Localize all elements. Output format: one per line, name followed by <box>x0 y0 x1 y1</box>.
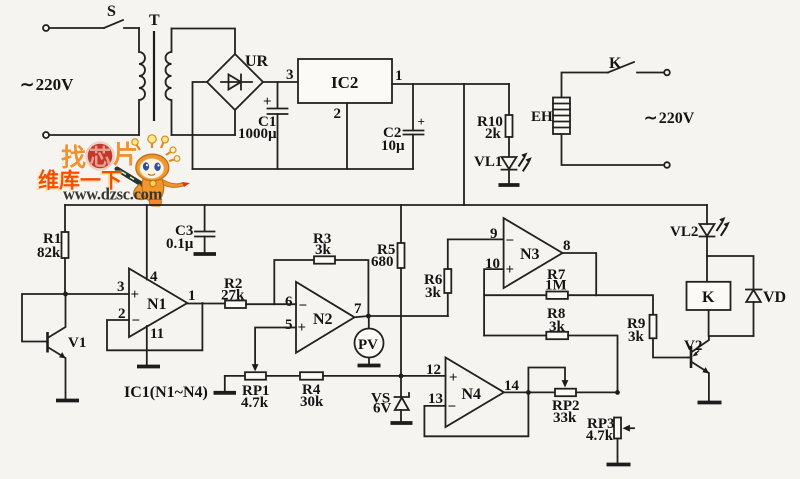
capacitor C1 1000u <box>238 82 288 169</box>
wire R7 junction to R9 <box>596 295 653 315</box>
wire secondary top to bridge <box>172 29 236 55</box>
wire R9 to V2 base <box>688 357 691 359</box>
transformer T primary winding <box>139 28 145 135</box>
svg-text:S: S <box>107 3 116 20</box>
svg-text:2k: 2k <box>485 126 502 142</box>
wire relay K bottom <box>708 310 710 336</box>
svg-text:V2: V2 <box>684 338 702 354</box>
wire terminal to switch S <box>49 27 104 29</box>
LED VL2 <box>670 205 730 240</box>
potentiometer RP2 33k <box>552 389 618 426</box>
N4 pin 13 feedback loop <box>424 392 528 436</box>
node N2 output junction <box>366 314 371 319</box>
ground below N1 pin 11 <box>137 365 160 369</box>
ground below PV <box>358 364 381 368</box>
resistor R6 3k <box>424 239 451 316</box>
ground rail top section <box>193 168 414 170</box>
N2 pin 5 wire to RP1 wiper <box>252 328 296 372</box>
wire node to N1 pin 3 <box>66 293 130 295</box>
wire bridge left vertex to ground rail <box>193 82 208 169</box>
svg-text:−: − <box>448 399 457 415</box>
svg-text:IC1(N1~N4): IC1(N1~N4) <box>124 384 208 401</box>
svg-text:+: + <box>506 262 515 278</box>
RP2 wiper wire <box>528 368 568 393</box>
svg-text:∼ 220V: ∼ 220V <box>644 110 695 127</box>
transistor V1 <box>48 294 87 399</box>
svg-text:UR: UR <box>245 53 269 70</box>
transformer T core <box>149 12 160 121</box>
svg-text:1000µ: 1000µ <box>238 126 277 142</box>
svg-text:芯: 芯 <box>89 145 111 170</box>
wire R2 to N2 pin 6 with R3 tap <box>246 303 296 305</box>
svg-text:680: 680 <box>371 254 394 270</box>
transformer T secondary winding <box>166 29 172 136</box>
N3 pin 10 wire <box>484 269 504 335</box>
zener diode VS 6V <box>371 376 409 421</box>
svg-text:VL1: VL1 <box>474 154 502 170</box>
meter PV <box>355 316 384 364</box>
svg-text:5: 5 <box>285 317 293 333</box>
svg-text:8: 8 <box>563 238 571 254</box>
transistor V2 <box>684 336 709 401</box>
svg-text:T: T <box>149 12 160 29</box>
wire EH top to switch K <box>562 73 609 98</box>
V+ rail lower section <box>65 204 707 206</box>
svg-text:N3: N3 <box>520 246 540 263</box>
wire R6 to N3 pin 9 <box>448 238 504 240</box>
ground below VS <box>391 421 413 425</box>
svg-text:+: + <box>449 370 458 386</box>
resistor R3 3k feedback <box>274 231 368 316</box>
svg-text:33k: 33k <box>553 410 577 426</box>
resistor R10 2k <box>477 84 513 156</box>
svg-text:27k: 27k <box>221 288 245 304</box>
svg-text:1: 1 <box>188 288 196 304</box>
resistor R2 27k <box>221 276 246 308</box>
svg-text:9: 9 <box>490 226 498 242</box>
switch K <box>608 55 634 73</box>
svg-text:+: + <box>263 94 272 110</box>
N1 pin 2 wire <box>107 303 202 350</box>
svg-text:K: K <box>702 289 715 306</box>
resistor R4 30k <box>300 372 446 410</box>
svg-text:30k: 30k <box>300 394 324 410</box>
IC2 pin 2 wire to ground rail <box>334 103 348 169</box>
op-amp N1 <box>117 269 196 343</box>
wire V+ drop from IC2 pin1 rail to lower rail <box>463 84 465 205</box>
svg-text:−: − <box>506 233 515 249</box>
svg-text:N1: N1 <box>147 296 167 313</box>
ground below VL1 <box>499 183 520 187</box>
svg-text:1M: 1M <box>545 278 567 294</box>
resistor R9 3k <box>627 315 688 358</box>
svg-text:10µ: 10µ <box>381 138 405 154</box>
svg-text:K: K <box>609 55 622 72</box>
svg-text:4: 4 <box>150 269 158 285</box>
watermark logo group <box>36 135 190 206</box>
wire switch K to right terminal <box>637 72 664 74</box>
ground below RP3 <box>607 463 631 467</box>
AC terminal lower right <box>664 162 670 168</box>
heater EH <box>531 98 570 135</box>
wire bridge bottom vertex down <box>234 110 236 135</box>
capacitor C3 0.1u <box>166 205 215 252</box>
svg-text:4.7k: 4.7k <box>241 395 269 411</box>
N3 output pin 8 wire <box>563 253 597 295</box>
wire switch to transformer primary <box>124 27 139 29</box>
op-amp N3 <box>485 218 571 288</box>
svg-text:3: 3 <box>117 279 125 295</box>
wire VL2 to relay and VD branch <box>707 237 754 290</box>
svg-text:6: 6 <box>285 294 293 310</box>
ground below V2 <box>698 401 722 405</box>
svg-text:EH: EH <box>531 109 553 125</box>
node VS / pin12 junction <box>399 374 404 379</box>
node V1/R1/N1 junction <box>63 292 68 297</box>
svg-text:6V: 6V <box>373 401 392 417</box>
resistor R8 3k <box>484 306 617 390</box>
IC2 pin 1 output wire <box>392 68 509 84</box>
svg-text:3k: 3k <box>628 329 645 345</box>
ground below V1 <box>56 399 79 403</box>
svg-text:−: − <box>299 298 308 314</box>
bridge rectifier UR <box>207 53 269 110</box>
wire bridge right vertex to IC2 pin 3 <box>263 81 298 83</box>
wire EH bottom to lower right terminal <box>562 134 665 165</box>
svg-text:VL2: VL2 <box>670 224 698 240</box>
N4 output wire to RP2 <box>504 391 555 393</box>
N1 pin 4 wire to V+ rail <box>146 205 148 280</box>
svg-text:N4: N4 <box>462 386 482 403</box>
svg-text:3k: 3k <box>425 285 442 301</box>
N2 output wire <box>355 316 448 317</box>
svg-text:IC2: IC2 <box>331 73 358 92</box>
pin 3 label IC2 <box>286 67 294 83</box>
svg-text:7: 7 <box>354 301 362 317</box>
svg-text:3k: 3k <box>549 319 566 335</box>
svg-text:2: 2 <box>334 106 342 122</box>
svg-text:+: + <box>131 287 140 303</box>
capacitor C2 10u <box>381 84 425 169</box>
svg-text:∼ 220V: ∼ 220V <box>20 75 74 94</box>
svg-text:13: 13 <box>428 391 443 407</box>
svg-text:4.7k: 4.7k <box>586 428 614 444</box>
svg-text:+: + <box>418 114 425 129</box>
svg-text:N2: N2 <box>313 311 333 328</box>
node RP2/RP3 junction <box>615 390 620 395</box>
resistor R5 680 <box>371 205 405 376</box>
svg-text:12: 12 <box>426 362 441 378</box>
op-amp N4 <box>426 358 520 428</box>
potentiometer RP3 4.7k <box>586 416 634 462</box>
resistor R1 82k <box>37 205 69 294</box>
svg-text:3k: 3k <box>315 242 332 258</box>
N1 pin 11 wire to ground <box>146 326 148 365</box>
svg-text:3: 3 <box>286 67 294 83</box>
LED VL1 <box>474 153 532 184</box>
ground below C3 <box>194 252 217 256</box>
svg-text:www.dzsc.com: www.dzsc.com <box>63 185 163 204</box>
svg-text:82k: 82k <box>37 245 61 261</box>
svg-text:0.1µ: 0.1µ <box>166 236 194 252</box>
svg-text:1: 1 <box>395 68 403 84</box>
wire secondary bottom to bridge bottom vertex <box>172 134 236 136</box>
switch S <box>104 3 123 28</box>
label IC1(N1~N4) <box>124 384 208 401</box>
resistor R7 1M feedback <box>484 267 596 299</box>
node N4 output junction <box>526 390 531 395</box>
svg-text:+: + <box>298 320 307 336</box>
svg-text:VD: VD <box>763 289 786 306</box>
AC input terminal upper left <box>43 25 49 31</box>
AC terminal upper right <box>664 70 670 76</box>
svg-text:PV: PV <box>358 337 378 353</box>
svg-text:−: − <box>132 313 141 329</box>
relay coil K <box>687 282 731 310</box>
wire bottom terminal to primary <box>49 134 139 136</box>
N1 output wire to R2 <box>187 303 225 305</box>
ground left of RP1 <box>214 376 237 393</box>
op-amp N2 <box>285 282 362 353</box>
label ~220V left <box>20 75 74 94</box>
AC input terminal lower left <box>43 132 49 138</box>
diode VD <box>746 289 786 336</box>
potentiometer RP1 4.7k <box>225 372 300 411</box>
svg-text:11: 11 <box>150 326 164 342</box>
wire VD bottom to V2 collector node <box>709 335 754 337</box>
label ~220V right <box>644 110 695 127</box>
svg-text:V1: V1 <box>68 335 86 351</box>
wire node to V1 base loop <box>22 294 66 342</box>
regulator IC2 <box>298 59 392 103</box>
